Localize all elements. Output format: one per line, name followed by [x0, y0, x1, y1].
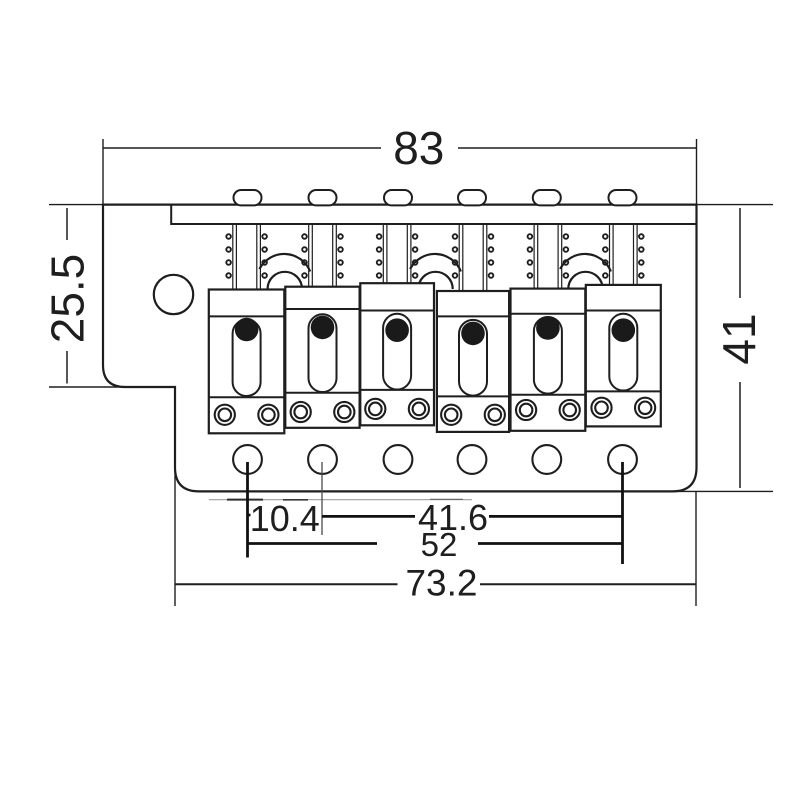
- dimension 83 line: [103, 147, 697, 149]
- saddle 1: [209, 290, 284, 434]
- dimension 52 line: [248, 542, 623, 545]
- extension line 73.2 left: [174, 467, 176, 606]
- string anchor arc outer 2: [410, 254, 461, 272]
- spring coils saddle 4: [453, 234, 494, 278]
- string slot oval 4: [458, 190, 486, 205]
- string slot oval 6: [609, 190, 637, 205]
- intonation screw shafts saddle 2: [309, 224, 337, 287]
- spring coils saddle 1: [226, 234, 267, 278]
- extension line 25.5 bottom: [49, 386, 130, 388]
- svg-text:10.4: 10.4: [250, 498, 320, 539]
- intonation screw shafts saddle 3: [383, 224, 411, 283]
- spring coils saddle 5: [528, 234, 569, 278]
- string anchor arc inner 2: [419, 272, 452, 293]
- extension line 73.2 right: [695, 491, 697, 606]
- pivot hole: [154, 275, 193, 314]
- string slot oval 2: [309, 190, 337, 205]
- bridge plate lip band: [171, 205, 695, 224]
- mounting hole 4: [458, 445, 487, 474]
- string slot oval 3: [384, 190, 412, 205]
- extension line hole 1: [246, 462, 249, 558]
- spring coils saddle 6: [603, 234, 644, 278]
- mounting hole 2: [308, 445, 337, 474]
- dimension 25.5 line: [66, 208, 68, 384]
- saddle 6: [586, 285, 661, 427]
- saddle 2: [285, 287, 359, 428]
- svg-text:83: 83: [393, 122, 444, 174]
- erased construction line: [209, 499, 472, 501]
- intonation screw shafts saddle 1: [233, 224, 261, 290]
- dimension 10.4 line: [248, 514, 251, 517]
- mounting hole 5: [532, 445, 561, 474]
- extension line 25.5 top: [49, 204, 103, 206]
- dimension 73.2 line: [175, 583, 696, 585]
- svg-text:41: 41: [713, 313, 765, 364]
- extension line 83 right: [696, 139, 698, 205]
- string slot oval 5: [533, 190, 561, 205]
- erased line dark mark 3: [430, 498, 463, 500]
- extension line 83 left: [102, 139, 104, 205]
- extension line 41 bottom: [672, 490, 773, 492]
- string anchor arc outer 1: [259, 254, 310, 272]
- extension line hole 2: [321, 462, 323, 535]
- bridge base plate outline: [103, 205, 697, 492]
- mounting hole 3: [384, 445, 413, 474]
- spring coils saddle 2: [302, 234, 343, 278]
- dimension 41.6 line: [322, 515, 623, 518]
- mounting hole 6: [608, 445, 637, 474]
- spring coils saddle 3: [377, 234, 418, 278]
- string anchor arc outer 3: [560, 254, 611, 272]
- saddle 4: [437, 291, 509, 432]
- svg-text:52: 52: [421, 526, 458, 563]
- svg-text:73.2: 73.2: [405, 563, 477, 604]
- erased line dark mark 2: [283, 499, 308, 501]
- extension line 41 top: [697, 204, 774, 206]
- mounting hole 1: [233, 445, 262, 474]
- erased line dark mark 1: [227, 499, 263, 501]
- intonation screw shafts saddle 6: [610, 224, 638, 285]
- saddle 5: [511, 289, 586, 431]
- dimension 41 line: [739, 208, 741, 488]
- string anchor arc inner 1: [268, 272, 301, 293]
- extension line hole 6: [621, 462, 624, 564]
- string slot oval 1: [234, 190, 262, 205]
- intonation screw shafts saddle 5: [534, 224, 562, 289]
- string anchor arc inner 3: [569, 272, 602, 293]
- svg-text:25.5: 25.5: [41, 254, 93, 344]
- intonation screw shafts saddle 4: [459, 224, 487, 291]
- saddle 3: [360, 283, 434, 425]
